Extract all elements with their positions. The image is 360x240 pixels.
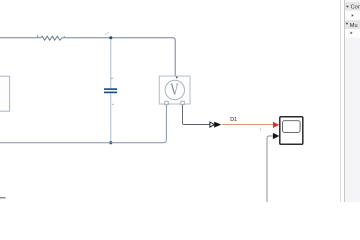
voltmeter dial circle [165, 80, 184, 99]
panel row 1 header background [345, 2, 360, 11]
capacitor polarity mark bottom [112, 104, 113, 105]
tiny signal-width annotation 1 [259, 126, 262, 131]
panel row 1 collapse triangle [346, 6, 349, 8]
voltmeter top pin dot [176, 77, 178, 79]
scope input 2 black arrowhead [273, 133, 279, 139]
svg-text:Mu: Mu [350, 23, 358, 29]
voltmeter V label [171, 84, 179, 94]
panel row 1 text [351, 4, 360, 10]
speck right of resistor [64, 36, 65, 37]
wire from bottom edge up to scope input 2 [267, 136, 273, 202]
scope screen [283, 121, 301, 133]
voltmeter plus pin square [181, 101, 184, 104]
panel row 3 text [350, 23, 358, 29]
scope block body [280, 117, 303, 145]
resistor R [41, 36, 62, 40]
partial source block at left edge [0, 76, 10, 111]
wire node A down to capacitor [110, 39, 112, 88]
hollow arrowhead on signal line [210, 122, 215, 127]
panel row 4 background [345, 29, 360, 38]
voltmeter minus pin square [165, 101, 168, 104]
capacitor polarity mark top [111, 78, 112, 79]
faint diagonal mark near node A [105, 32, 110, 36]
canvas right border line [340, 0, 341, 202]
svg-text:Con: Con [351, 4, 360, 10]
scope input 1 red arrowhead [273, 122, 279, 128]
svg-text:D1: D1 [230, 117, 237, 123]
voltmeter block VM body [159, 76, 190, 104]
panel row 2 expand triangle [352, 14, 354, 17]
capacitor C plates [104, 88, 117, 93]
panel row 2 background [345, 11, 360, 20]
panel splitter line [344, 0, 345, 202]
panel row 4 expand triangle [351, 32, 353, 35]
node A junction dot on top wire [109, 36, 112, 39]
side panel background [345, 0, 360, 202]
wire capacitor down to bottom net [110, 93, 112, 141]
panel row 3 collapse triangle [346, 23, 349, 25]
wire voltmeter output pin down and right [183, 105, 210, 125]
solid arrowhead on signal line [214, 122, 221, 128]
partial label dash bottom-left [0, 197, 6, 199]
node B junction dot on bottom wire [109, 141, 112, 144]
speck above wire left of resistor [37, 35, 39, 37]
wire top net from resistor to corner, down into voltmeter [62, 38, 175, 81]
signal label D1 [230, 117, 237, 123]
wire bottom net from left edge up to voltmeter minus pin [0, 105, 166, 143]
wire red signal to scope input 1 [222, 124, 273, 126]
wire top net from left edge to resistor [0, 37, 41, 39]
panel row 3 header background [345, 20, 360, 29]
